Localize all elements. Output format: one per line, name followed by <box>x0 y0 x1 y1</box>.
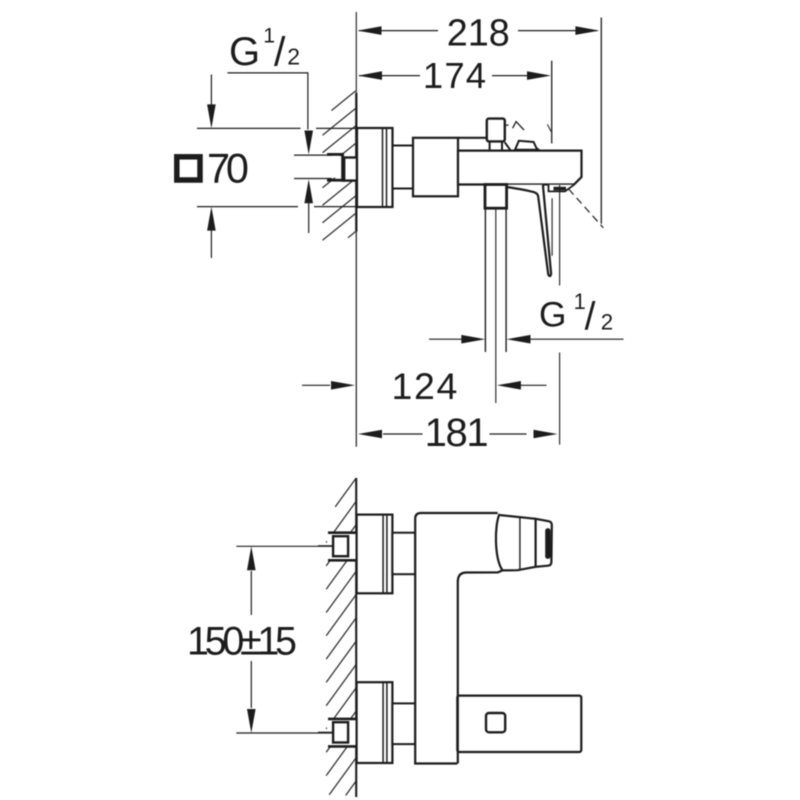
phantom lever dash <box>547 124 551 131</box>
lever (bottom view) <box>500 515 535 519</box>
lever cap slot <box>545 528 550 559</box>
lower flange <box>357 682 393 763</box>
G1/2 up arrow at pipe <box>304 179 313 203</box>
knob base diagonal <box>505 142 511 150</box>
aerator slot <box>554 187 567 191</box>
spout extension line (vertical, upper) <box>559 185 561 286</box>
cartridge housing <box>413 138 458 197</box>
knob neck <box>489 141 491 150</box>
lever hub <box>515 141 539 150</box>
svg-text:/: / <box>274 28 286 74</box>
dashed stream diagonal <box>569 189 604 228</box>
aerator spout end <box>549 185 575 192</box>
upper fitting thick lines <box>328 533 356 561</box>
spout extension line (vertical, lower) <box>559 353 561 445</box>
svg-text:2: 2 <box>601 310 613 335</box>
neck cylinder <box>393 146 414 189</box>
body right edge <box>457 580 459 764</box>
lever arc <box>496 514 503 571</box>
upper nut <box>333 536 348 556</box>
white backing upper fitting <box>327 534 356 560</box>
dim 218 <box>359 30 597 32</box>
lever cap <box>536 519 552 567</box>
white backing supply pipe <box>294 156 344 178</box>
shower pipe center line <box>495 208 497 403</box>
70 bottom arrow <box>207 207 216 231</box>
rear body top line <box>458 137 487 139</box>
upper supply line <box>318 545 333 547</box>
escutcheon top reference line <box>197 128 356 206</box>
lever separator <box>519 517 521 570</box>
wall hatching (top view) <box>323 91 356 240</box>
svg-text:70: 70 <box>207 145 249 192</box>
G1/2 middle leader line <box>429 338 624 340</box>
svg-text:124: 124 <box>392 365 458 407</box>
svg-text:218: 218 <box>447 13 510 55</box>
lever blade (top view) <box>506 185 551 276</box>
upper flange <box>357 515 393 594</box>
phantom lever tick <box>505 124 509 126</box>
svg-text:G: G <box>229 30 260 74</box>
phantom lever outline <box>513 122 524 130</box>
line under aerator <box>551 198 553 256</box>
svg-text:174: 174 <box>423 55 486 96</box>
aerator square hole <box>486 713 505 732</box>
dim 150±15 <box>236 546 333 733</box>
upper nipple <box>392 533 415 575</box>
dim 124 <box>302 384 547 386</box>
main body (top view) <box>458 151 582 185</box>
dim 174 <box>359 75 527 77</box>
supply pipe thin outline <box>294 155 332 178</box>
lower fitting thick lines <box>328 719 356 747</box>
shower pipe lines <box>484 208 486 352</box>
G1/2 down arrow at pipe <box>304 131 313 155</box>
escutcheon flange <box>357 128 393 207</box>
lower supply line <box>318 731 333 733</box>
lower nut <box>333 722 348 742</box>
body (bottom view) <box>415 513 458 764</box>
70 top arrow <box>207 104 216 128</box>
svg-text:G: G <box>539 296 566 335</box>
pipe nipple through wall <box>344 158 357 181</box>
lever bottom edge <box>458 567 536 581</box>
extension line 218 <box>600 18 602 224</box>
wall line (top view) <box>355 12 357 93</box>
G1/2 top leader <box>228 73 308 130</box>
wall hatching (bottom view) <box>326 478 356 795</box>
square symbol <box>177 157 200 180</box>
svg-text:181: 181 <box>425 411 489 455</box>
svg-text:150±15: 150±15 <box>187 619 297 663</box>
extension line 174 <box>551 61 553 144</box>
dim 181 <box>383 433 527 435</box>
spout (bottom view) <box>457 696 581 752</box>
shower outlet block <box>485 185 507 209</box>
white backing lower fitting <box>327 720 356 746</box>
wall line (bottom view) <box>355 478 357 797</box>
svg-text:2: 2 <box>287 44 300 70</box>
lower nipple <box>392 703 415 744</box>
supply pipe fitting thick <box>327 153 343 182</box>
svg-text:/: / <box>585 296 596 339</box>
diverter knob <box>487 119 505 142</box>
